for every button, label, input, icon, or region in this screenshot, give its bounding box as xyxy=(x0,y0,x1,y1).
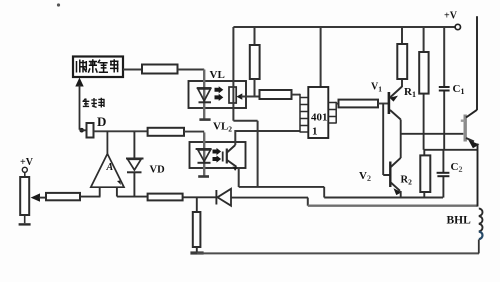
svg-text:D: D xyxy=(97,114,106,129)
ground (bottom) xyxy=(190,251,203,254)
svg-text:VL: VL xyxy=(210,69,225,81)
IC 4013 xyxy=(308,27,328,138)
wire +V top rail xyxy=(233,26,455,28)
label input signal (small CJK) xyxy=(83,98,105,108)
ground (VL2 LED) xyxy=(198,175,209,178)
wire op-amp right leg to resistor xyxy=(117,196,148,198)
resistor R2 xyxy=(401,150,431,198)
wire to junction xyxy=(183,196,216,198)
ground (pot) xyxy=(19,223,31,225)
capacitor C1 xyxy=(439,27,465,150)
wire D to resistor xyxy=(94,130,148,132)
resistor (vertical at node) xyxy=(193,197,201,251)
optocoupler VL2 box xyxy=(190,142,246,168)
wire resistor to op-amp left leg xyxy=(80,196,101,198)
svg-text:+V: +V xyxy=(20,157,34,168)
wire V1/V2 base tie xyxy=(383,104,390,176)
diode VD xyxy=(126,132,165,197)
wire IC to resistor xyxy=(336,103,338,105)
wire VL output to resistor xyxy=(241,96,260,98)
power terminal +V top right xyxy=(444,11,460,30)
wire resistor to V1 base xyxy=(378,103,389,105)
wire emitter node (y150) xyxy=(424,149,478,151)
resistor pull-up xyxy=(250,27,260,97)
svg-text:A: A xyxy=(106,162,114,173)
LED of VL xyxy=(197,70,212,119)
wire V1 collector down xyxy=(400,120,402,159)
phototransistor VL2 xyxy=(223,145,238,171)
diode (left pointing) xyxy=(216,189,308,206)
svg-text:VD: VD xyxy=(150,165,166,176)
wire VL output elbow xyxy=(233,121,257,187)
svg-text:+V: +V xyxy=(444,11,458,22)
capacitor C2 xyxy=(437,150,463,198)
buzzer BHL coil xyxy=(479,209,483,254)
transistor V1 xyxy=(371,79,402,120)
resistor (wiper line) xyxy=(46,193,80,200)
IC right pins xyxy=(328,102,336,124)
wire A (VL2 outputs to V2 stage) xyxy=(239,187,443,198)
wire VL2 emitter down xyxy=(238,168,240,188)
potentiometer RP xyxy=(20,172,29,223)
op-amp A xyxy=(91,131,124,197)
resistor (rail, second) xyxy=(419,27,428,150)
wire gray bus to BHL xyxy=(308,204,478,206)
resistor (IC to V1 base) xyxy=(339,100,379,108)
optocoupler VL box xyxy=(189,81,247,108)
wire VL2 collector up and to IC xyxy=(235,131,300,145)
wire to output transistor base xyxy=(401,133,464,135)
svg-text:401: 401 xyxy=(311,112,328,124)
IC left pins xyxy=(300,94,308,133)
svg-text:1: 1 xyxy=(312,126,318,138)
transistor V2 xyxy=(359,158,402,198)
wire resistor to VL LED xyxy=(178,69,205,71)
ground (VL LED) xyxy=(199,118,210,121)
wire node to D xyxy=(80,129,87,131)
svg-text:BHL: BHL xyxy=(447,215,472,227)
wire bottom return bus xyxy=(197,252,479,254)
pulse control box (脉冲控制) xyxy=(73,57,123,78)
wire rail down through VL photo element xyxy=(232,27,234,121)
resistor (pulse line) xyxy=(142,65,178,74)
transistor V3 (output driver) xyxy=(461,16,480,206)
pot wiper arrow xyxy=(31,193,46,201)
wire resistor to VL2 LED xyxy=(184,131,204,133)
power terminal +V left xyxy=(20,157,34,172)
resistor (to IC pin top) xyxy=(260,90,292,99)
wire step down to gray bus xyxy=(307,198,309,206)
component D xyxy=(87,114,107,138)
resistor (D line) xyxy=(148,128,184,136)
light arrows VL2 xyxy=(213,148,222,163)
light arrows VL xyxy=(215,86,224,101)
wire to IC pins xyxy=(292,94,301,96)
node junction at D xyxy=(79,128,84,133)
resistor (to diode) xyxy=(148,194,183,201)
speck dot top left xyxy=(57,3,60,6)
photo element of VL xyxy=(229,87,242,103)
input arrow into pulse box xyxy=(75,78,83,130)
wire box to resistor xyxy=(123,69,142,71)
LED of VL2 xyxy=(196,132,212,175)
resistor R1 xyxy=(397,27,416,99)
